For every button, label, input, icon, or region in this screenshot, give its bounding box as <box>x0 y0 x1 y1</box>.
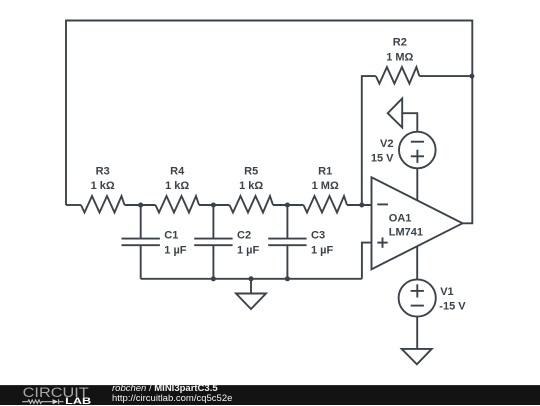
svg-text:1 MΩ: 1 MΩ <box>312 180 339 192</box>
svg-text:1 kΩ: 1 kΩ <box>91 180 115 192</box>
svg-text:R1: R1 <box>318 166 332 178</box>
wire R3-R4 <box>125 204 156 206</box>
svg-text:1 µF: 1 µF <box>164 244 187 256</box>
ground middle <box>236 279 266 309</box>
node flag arrow <box>388 99 418 132</box>
junction node C2 bottom <box>211 276 216 281</box>
svg-text:V2: V2 <box>380 138 393 150</box>
junction node R2 output <box>469 74 474 79</box>
resistor R5 <box>230 196 274 213</box>
svg-text:-15 V: -15 V <box>439 300 466 312</box>
svg-text:R4: R4 <box>170 166 185 178</box>
svg-text:1 kΩ: 1 kΩ <box>165 180 189 192</box>
voltage source V1 <box>399 279 436 316</box>
svg-text:R5: R5 <box>244 166 258 178</box>
svg-text:1 kΩ: 1 kΩ <box>239 180 263 192</box>
op-amp plus symbol <box>377 237 387 247</box>
svg-text:V1: V1 <box>440 286 453 298</box>
svg-text:C2: C2 <box>237 230 251 242</box>
resistor R1 <box>304 196 348 213</box>
svg-text:1 µF: 1 µF <box>237 244 260 256</box>
circuitlab logo <box>0 386 100 406</box>
op-amp minus symbol <box>377 203 388 205</box>
wire feedback riser <box>362 76 376 205</box>
junction node C3 top <box>285 203 290 208</box>
wire R2 to output node <box>419 75 472 77</box>
wire top loop <box>66 21 472 224</box>
junction node C1 top <box>138 203 143 208</box>
wire R4-R5 <box>199 204 230 206</box>
resistor R4 <box>156 196 200 213</box>
svg-text:15 V: 15 V <box>371 152 394 164</box>
wire main row <box>66 204 81 206</box>
svg-text:C1: C1 <box>164 230 178 242</box>
ground bottom <box>402 349 432 364</box>
wire R5-R1 <box>273 204 304 206</box>
wire R1 to op-amp minus <box>347 204 372 206</box>
op-amp OA1 <box>372 177 463 269</box>
junction node C3 bottom <box>285 276 290 281</box>
wire bottom rail <box>141 278 362 280</box>
wire V2 to op-amp vplus pin <box>416 168 418 200</box>
svg-text:C3: C3 <box>311 230 325 242</box>
capacitor C3 <box>268 205 306 279</box>
wire V1 to ground <box>416 317 418 349</box>
svg-text:OA1: OA1 <box>389 213 412 225</box>
svg-text:R2: R2 <box>393 37 407 49</box>
svg-text:1 MΩ: 1 MΩ <box>386 51 413 63</box>
capacitor C1 <box>122 205 160 279</box>
svg-text:LM741: LM741 <box>389 226 423 238</box>
junction node ground tap <box>249 276 254 281</box>
junction node C2 top <box>211 203 216 208</box>
resistor R2 <box>376 67 420 84</box>
resistor R3 <box>81 196 125 213</box>
svg-text:1 µF: 1 µF <box>311 244 334 256</box>
capacitor C2 <box>194 205 232 279</box>
wire plus input riser <box>362 243 372 279</box>
junction node minus input <box>359 203 364 208</box>
svg-text:R3: R3 <box>96 166 110 178</box>
wire op-amp vminus pin to V1 <box>416 246 418 279</box>
voltage source V2 <box>399 132 436 169</box>
footer bar <box>0 385 540 405</box>
